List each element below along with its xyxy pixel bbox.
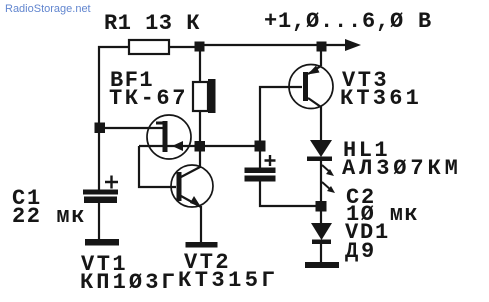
svg-text:+1,Ø...6,Ø В: +1,Ø...6,Ø В — [264, 9, 432, 34]
transistor VT3 — [289, 65, 333, 109]
transistor VT2 — [171, 165, 213, 207]
diode VD1 — [311, 223, 332, 244]
svg-text:22 мк: 22 мк — [12, 204, 86, 229]
resistor R1 — [129, 40, 169, 54]
wire VT3 emitter top lead — [320, 49, 322, 66]
LED HL1 — [307, 140, 335, 193]
wire VT2 emitter lead — [200, 206, 202, 242]
wire BF1 bottom lead — [199, 111, 201, 143]
wire C2 top lead — [259, 149, 261, 168]
ground C1 — [85, 239, 119, 246]
wire VT3 base lead — [260, 87, 302, 143]
svg-text:КТ315Г: КТ315Г — [178, 268, 278, 293]
wire VT3 collector lead — [320, 106, 322, 140]
wire BF1 top lead — [199, 50, 201, 82]
node J6 left rail/VT1 gate — [95, 123, 106, 134]
node J1 resistor/top rail — [195, 42, 205, 52]
capacitor C1 — [83, 176, 118, 204]
wire feedback to VT2 base — [139, 146, 176, 187]
svg-text:АЛ3Ø7КМ: АЛ3Ø7КМ — [342, 156, 462, 181]
wire C2 bottom to node J5 — [260, 180, 318, 206]
earphone BF1 — [193, 79, 216, 113]
wire resistor right lead — [169, 46, 196, 48]
wire C1 bottom lead — [98, 202, 100, 240]
wire top rail — [200, 44, 347, 46]
wire VD1 bottom lead — [320, 243, 322, 263]
supply arrow — [345, 39, 361, 51]
node J4 VT3 base/C2 — [255, 141, 266, 152]
wire HL1 to node J5 — [320, 161, 322, 204]
wire node row y146 — [139, 145, 258, 147]
svg-text:КП1Ø3Г: КП1Ø3Г — [80, 270, 178, 295]
node J5 C2/VD1 — [316, 201, 327, 212]
ground VT2 emitter — [186, 242, 218, 248]
wire VT2 collector lead — [199, 149, 201, 168]
svg-text:R1 13 К: R1 13 К — [104, 11, 200, 36]
transistor VT1 — [147, 115, 191, 159]
svg-text:RadioStorage.net: RadioStorage.net — [5, 3, 91, 15]
node J2 top rail/VT3 emitter — [317, 42, 327, 52]
wire VD1 top lead — [320, 208, 322, 223]
wire VT1 gate lead — [99, 127, 163, 129]
capacitor C2 — [245, 155, 276, 182]
svg-text:ТК-67: ТК-67 — [109, 86, 188, 111]
svg-text:Д9: Д9 — [345, 239, 377, 264]
wire left rail — [99, 47, 130, 190]
svg-text:КТ361: КТ361 — [340, 86, 422, 111]
ground VD1 — [305, 262, 339, 268]
node J3 BF1/VT1/VT2 collector — [195, 141, 206, 152]
